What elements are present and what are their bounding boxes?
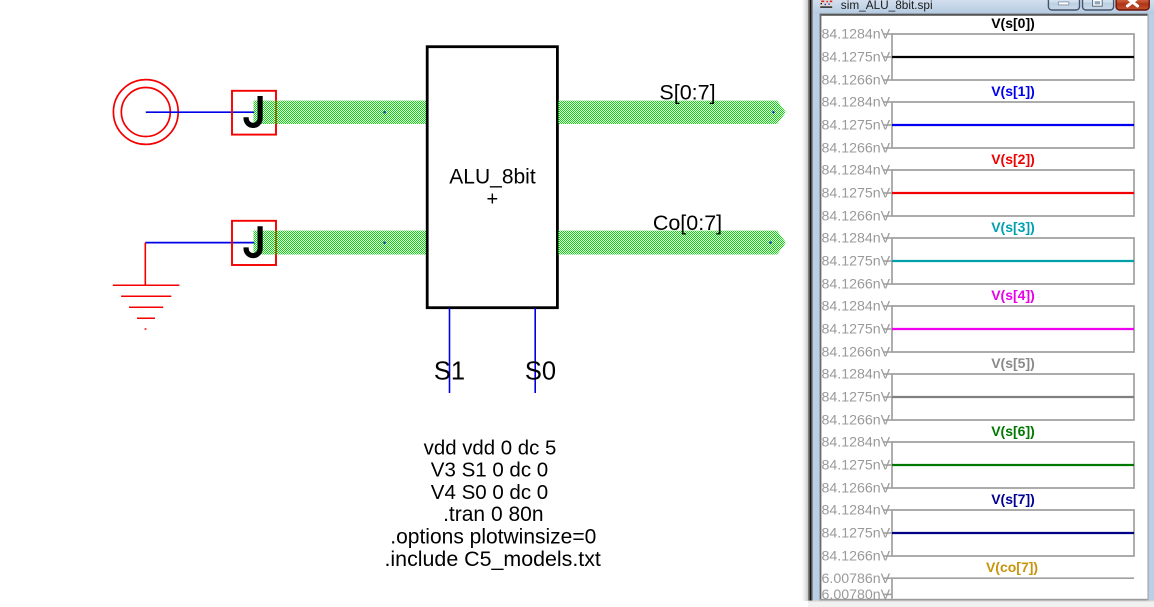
svg-text:sim_ALU_8bit.spi: sim_ALU_8bit.spi <box>841 0 933 12</box>
svg-text:84.1266nV: 84.1266nV <box>822 413 891 429</box>
svg-text:6.00786nV: 6.00786nV <box>822 571 891 587</box>
svg-text:84.1284nV: 84.1284nV <box>822 231 891 247</box>
svg-text:84.1275nV: 84.1275nV <box>822 118 891 134</box>
ALU_8bit block U1 <box>427 47 557 308</box>
plot pane V(s[2]) <box>822 151 1135 225</box>
svg-text:84.1275nV: 84.1275nV <box>822 526 891 542</box>
svg-text:V3 S1 0 dc 0: V3 S1 0 dc 0 <box>431 459 548 482</box>
svg-text:84.1266nV: 84.1266nV <box>822 549 891 565</box>
plot pane V(co[7]) (cut off) <box>822 559 1135 603</box>
plot pane V(s[7]) <box>822 491 1135 565</box>
spice directive text block <box>384 438 600 571</box>
window icon <box>820 0 833 8</box>
junction dot on input bus A <box>383 111 385 113</box>
svg-text:84.1275nV: 84.1275nV <box>822 458 891 474</box>
plot pane V(s[1]) <box>822 83 1135 157</box>
junction dot on bus Co[0:7] <box>769 241 771 243</box>
svg-text:ALU_8bit: ALU_8bit <box>449 166 536 189</box>
svg-text:84.1275nV: 84.1275nV <box>822 322 891 338</box>
svg-text:84.1275nV: 84.1275nV <box>822 50 891 66</box>
svg-text:.options plotwinsize=0: .options plotwinsize=0 <box>390 526 596 549</box>
wire from ground net to bus tap J2 <box>145 242 255 244</box>
voltage source vdd (double circle symbol) <box>113 80 178 145</box>
svg-text:.tran 0 80n: .tran 0 80n <box>443 503 543 526</box>
minimize button <box>1048 0 1079 10</box>
svg-text:6.00780nV: 6.00780nV <box>822 587 891 603</box>
svg-text:S[0:7]: S[0:7] <box>659 81 715 105</box>
plot pane V(s[4]) <box>822 287 1135 361</box>
bus wire Co[0:7] output (green hatched, pointed end) <box>558 231 786 255</box>
svg-text:Co[0:7]: Co[0:7] <box>653 211 722 235</box>
svg-text:84.1266nV: 84.1266nV <box>822 481 891 497</box>
wire S1 (select bit 1) <box>449 308 451 393</box>
bus tap J1 glyph <box>246 96 260 125</box>
svg-text:84.1266nV: 84.1266nV <box>822 345 891 361</box>
svg-text:V(s[3]): V(s[3]) <box>991 219 1035 235</box>
bus wire A input (green hatched) <box>254 101 428 124</box>
close button <box>1116 0 1149 10</box>
bus tap J2 (red box) <box>232 221 276 265</box>
svg-text:S1: S1 <box>434 358 465 386</box>
svg-text:84.1284nV: 84.1284nV <box>822 95 891 111</box>
svg-text:+: + <box>486 189 498 211</box>
svg-text:V(s[6]): V(s[6]) <box>991 423 1035 439</box>
svg-text:.include C5_models.txt: .include C5_models.txt <box>384 547 600 571</box>
svg-text:84.1266nV: 84.1266nV <box>822 277 891 293</box>
svg-text:84.1275nV: 84.1275nV <box>822 390 891 406</box>
svg-text:V(s[4]): V(s[4]) <box>991 287 1035 303</box>
svg-text:V(s[0]): V(s[0]) <box>991 15 1035 31</box>
svg-text:84.1284nV: 84.1284nV <box>822 367 891 383</box>
plot pane V(s[5]) <box>822 355 1135 429</box>
svg-text:84.1284nV: 84.1284nV <box>822 503 891 519</box>
plot pane V(s[3]) <box>822 219 1135 293</box>
svg-text:V4 S0 0 dc 0: V4 S0 0 dc 0 <box>431 481 548 504</box>
bus tap J2 glyph <box>246 226 260 255</box>
svg-text:V(s[7]): V(s[7]) <box>991 491 1035 507</box>
svg-text:V(s[1]): V(s[1]) <box>991 83 1035 99</box>
svg-text:V(s[2]): V(s[2]) <box>991 151 1035 167</box>
svg-text:84.1284nV: 84.1284nV <box>822 435 891 451</box>
svg-text:84.1266nV: 84.1266nV <box>822 141 891 157</box>
junction dot on bus S[0:7] <box>772 111 774 113</box>
waveform window sim_ALU_8bit.spi <box>800 0 1154 607</box>
ground symbol <box>113 285 180 329</box>
svg-text:84.1266nV: 84.1266nV <box>822 73 891 89</box>
svg-text:84.1284nV: 84.1284nV <box>822 163 891 179</box>
svg-text:84.1275nV: 84.1275nV <box>822 186 891 202</box>
wire S0 (select bit 0) <box>534 308 536 393</box>
svg-text:V(co[7]): V(co[7]) <box>986 559 1038 575</box>
svg-text:vdd vdd 0 dc 5: vdd vdd 0 dc 5 <box>424 438 557 460</box>
bus wire B input (green hatched) <box>254 231 428 255</box>
bus wire S[0:7] output (green hatched, pointed end) <box>558 101 786 124</box>
junction dot on input bus B <box>383 242 385 244</box>
svg-text:84.1275nV: 84.1275nV <box>822 254 891 270</box>
bus tap J1 (red box) <box>232 91 276 135</box>
svg-text:84.1284nV: 84.1284nV <box>822 27 891 43</box>
wire ground stem (red) <box>144 243 146 286</box>
plot pane V(s[6]) <box>822 423 1135 497</box>
svg-text:S0: S0 <box>525 358 556 386</box>
svg-text:V(s[5]): V(s[5]) <box>991 355 1035 371</box>
svg-text:84.1284nV: 84.1284nV <box>822 299 891 315</box>
wire from vdd to bus tap J1 <box>146 111 255 113</box>
svg-text:84.1266nV: 84.1266nV <box>822 209 891 225</box>
plot pane V(s[0]) <box>822 15 1135 89</box>
maximize button <box>1083 0 1114 10</box>
